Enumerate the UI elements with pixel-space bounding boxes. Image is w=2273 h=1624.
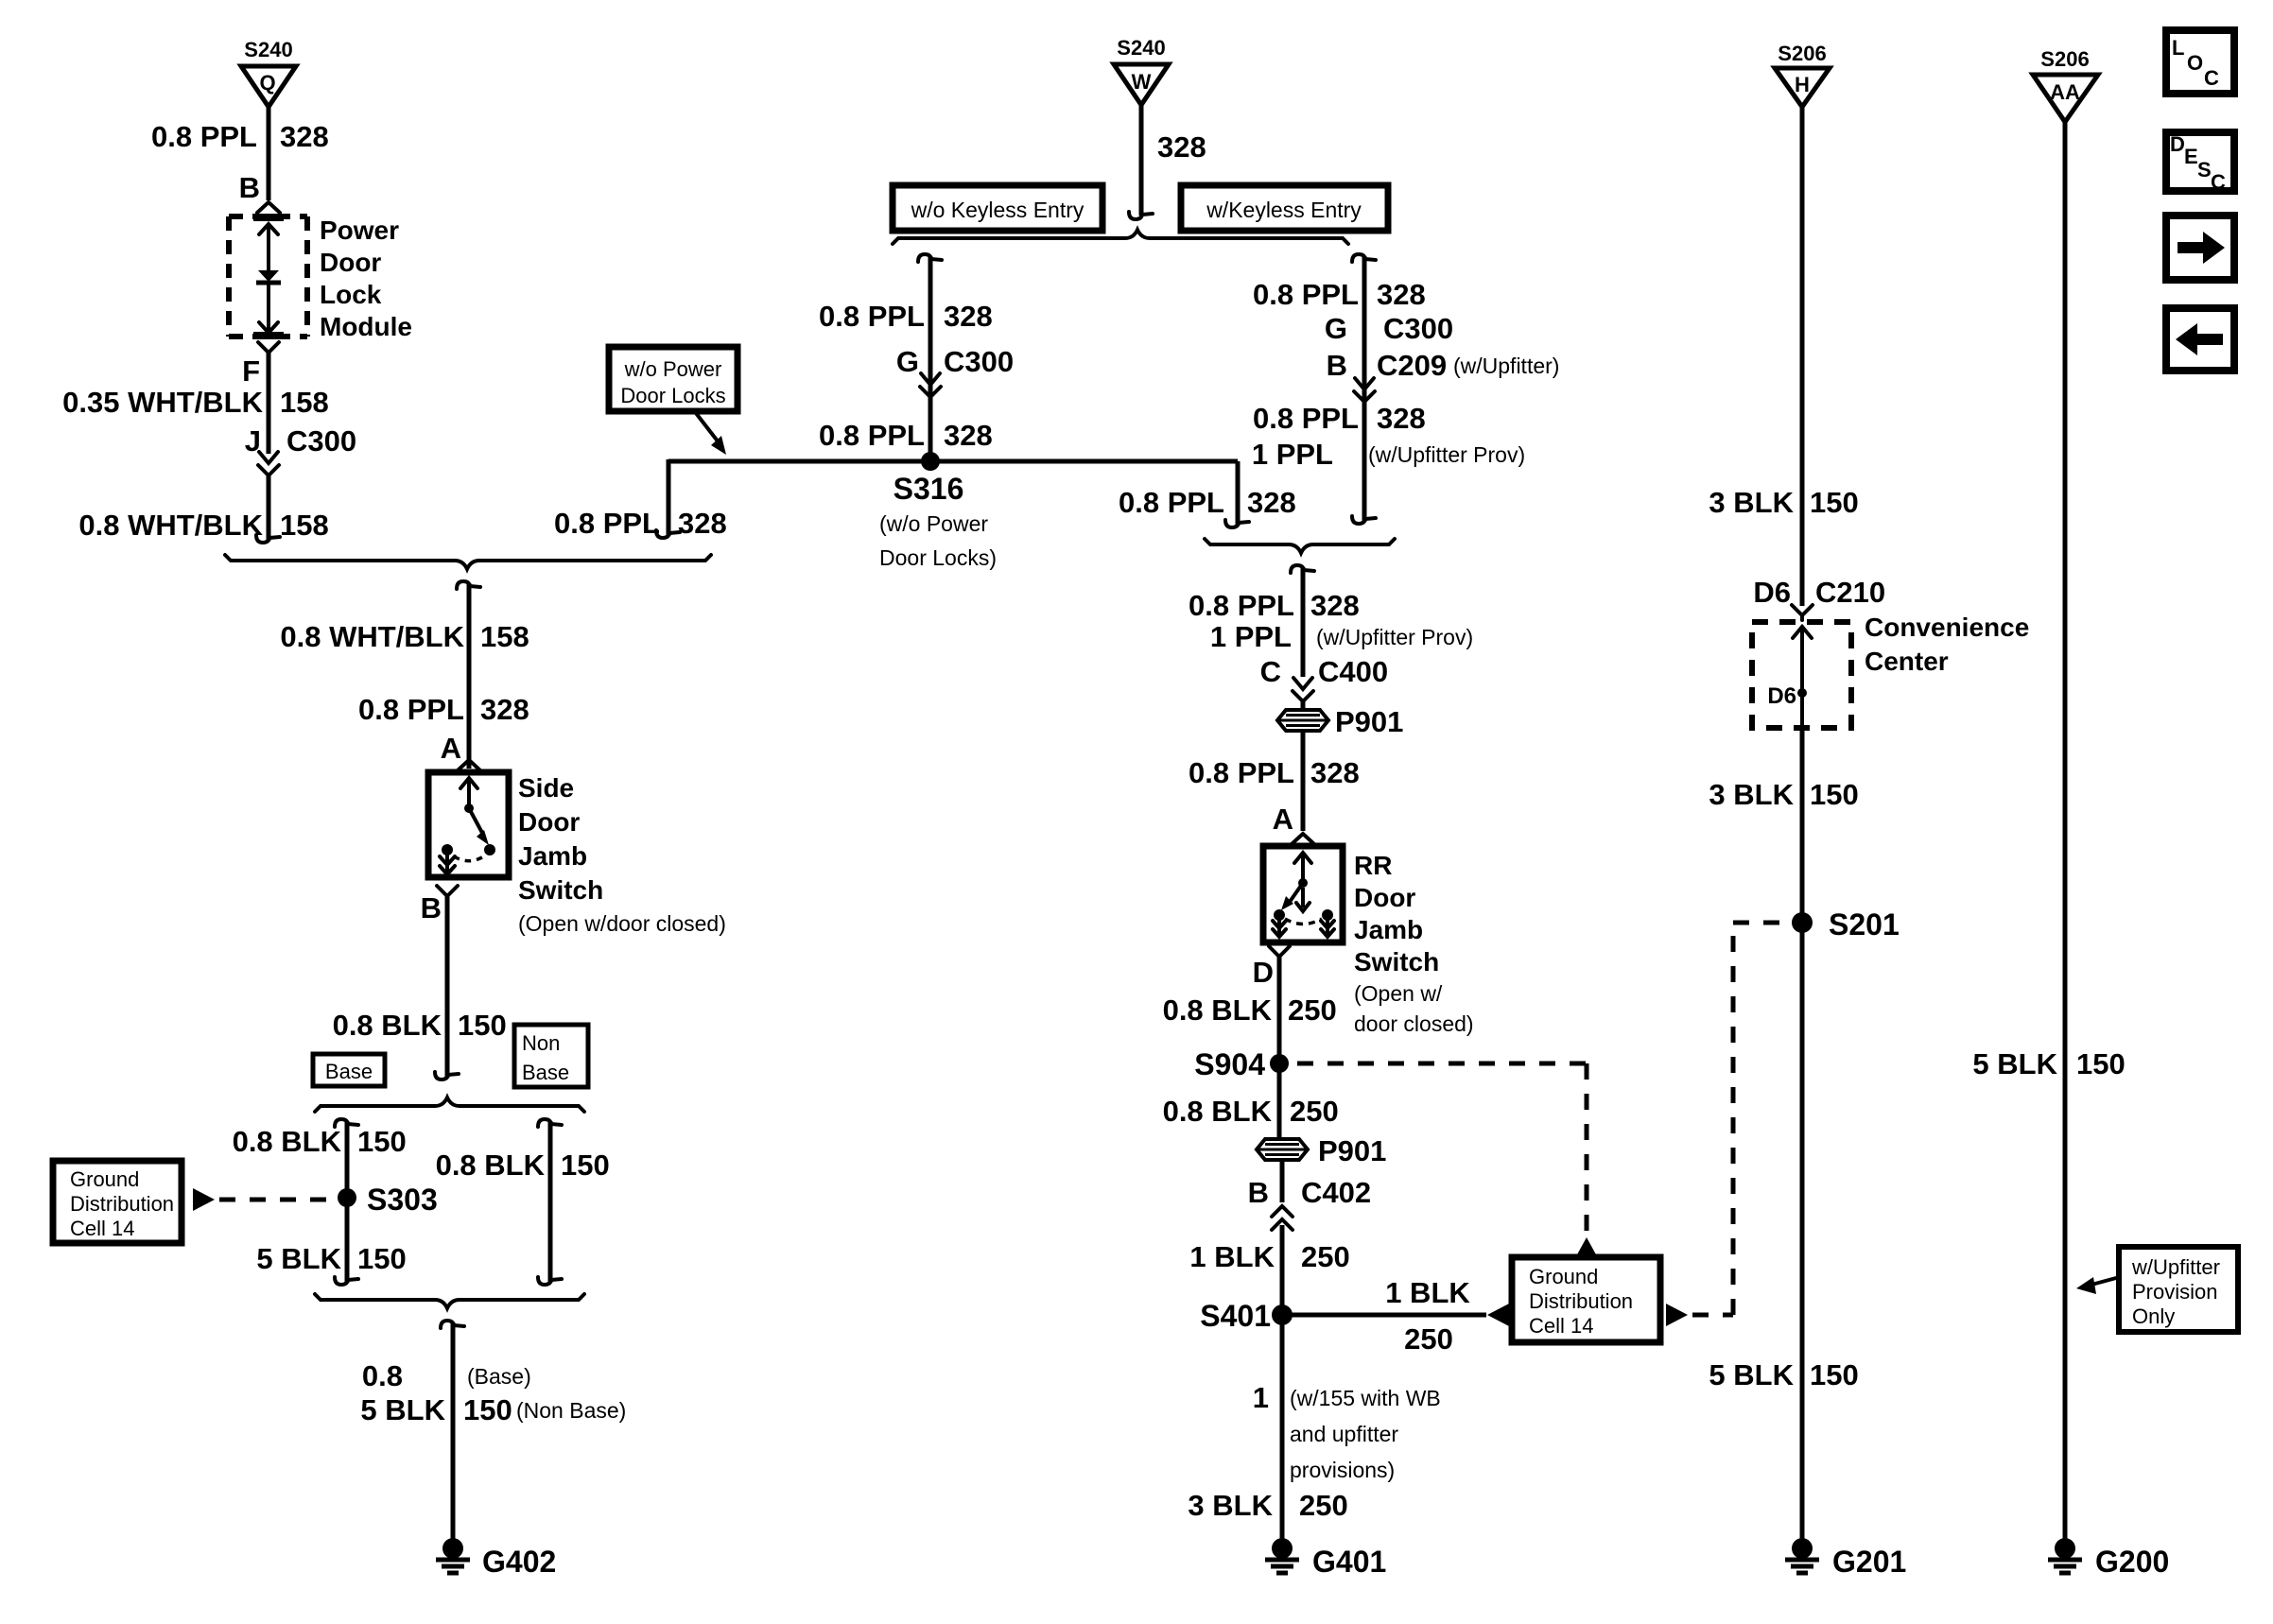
svg-text:L: L — [2172, 36, 2184, 60]
label 0.8 PPL 328 — [358, 693, 529, 726]
pin B chevron — [437, 886, 458, 903]
svg-text:328: 328 — [1310, 589, 1360, 622]
label 3 BLK 150 — [1709, 778, 1858, 811]
svg-text:C300: C300 — [944, 345, 1014, 378]
connector C300 pin G (keyless) — [1325, 312, 1453, 345]
svg-text:w/o Keyless Entry: w/o Keyless Entry — [911, 198, 1084, 222]
svg-text:S316: S316 — [894, 472, 964, 506]
svg-text:door closed): door closed) — [1354, 1011, 1474, 1036]
label 3 BLK 250 — [1188, 1489, 1347, 1522]
wire — [445, 896, 450, 1078]
svg-text:1: 1 — [1253, 1381, 1269, 1414]
wire end curl — [435, 1072, 459, 1080]
ground G200 — [2048, 1538, 2169, 1579]
svg-text:0.8 PPL: 0.8 PPL — [554, 507, 660, 540]
svg-text:150: 150 — [561, 1149, 610, 1182]
svg-text:Door: Door — [320, 248, 381, 277]
svg-text:C210: C210 — [1815, 576, 1885, 609]
option box w/Keyless Entry — [1181, 185, 1388, 231]
svg-text:Jamb: Jamb — [518, 841, 587, 871]
legend box arrow left — [2166, 308, 2234, 371]
svg-text:150: 150 — [2076, 1047, 2126, 1080]
svg-text:Cell 14: Cell 14 — [70, 1217, 134, 1240]
svg-text:158: 158 — [280, 509, 329, 542]
svg-text:(Open w/door closed): (Open w/door closed) — [518, 911, 726, 936]
svg-text:Base: Base — [522, 1061, 569, 1084]
splice S303 — [338, 1183, 438, 1217]
wire start curl (left option) — [335, 1119, 358, 1127]
svg-text:Cell 14: Cell 14 — [1529, 1314, 1593, 1338]
label 1 BLK / 250 — [1385, 1276, 1470, 1356]
wire — [1277, 1063, 1282, 1139]
svg-text:(Non Base): (Non Base) — [516, 1398, 626, 1423]
svg-text:0.8 BLK: 0.8 BLK — [436, 1149, 546, 1182]
wire — [267, 147, 271, 200]
wire (w/keyless branch) — [1362, 256, 1367, 522]
callout arrow from upfitter box — [2076, 1277, 2116, 1294]
svg-text:H: H — [1795, 73, 1810, 96]
junction brace (split, opens up) — [315, 1097, 584, 1112]
label 0.8 PPL 328 — [1119, 486, 1296, 519]
svg-text:S206: S206 — [2040, 47, 2089, 71]
svg-text:Distribution: Distribution — [70, 1192, 174, 1216]
convenience center dashed box — [1752, 622, 1851, 728]
splice S240 (Q) — [241, 38, 296, 107]
svg-text:328: 328 — [280, 120, 329, 153]
junction brace (left merge) — [225, 555, 711, 569]
wire — [267, 107, 271, 194]
svg-text:(w/Upfitter Prov): (w/Upfitter Prov) — [1316, 625, 1473, 649]
switch right contact — [484, 844, 495, 855]
svg-text:(w/155 with WB: (w/155 with WB — [1290, 1386, 1441, 1410]
wire (S316 right corner down) — [1236, 461, 1241, 526]
svg-text:S303: S303 — [367, 1183, 438, 1217]
wire — [267, 475, 271, 541]
svg-text:1 BLK: 1 BLK — [1385, 1276, 1470, 1309]
svg-text:E: E — [2184, 145, 2198, 168]
ground G401 — [1265, 1538, 1386, 1579]
option box Base — [313, 1054, 385, 1086]
svg-text:5 BLK: 5 BLK — [360, 1393, 445, 1426]
wire end curl (right option) — [538, 1277, 562, 1285]
svg-text:Base: Base — [325, 1060, 373, 1083]
wire start curl — [1291, 565, 1314, 573]
grommet P901 — [1277, 705, 1403, 738]
label 5 BLK 150 — [1972, 1047, 2125, 1080]
wire (right option) — [548, 1121, 553, 1283]
svg-text:0.8 BLK: 0.8 BLK — [333, 1009, 442, 1042]
svg-text:Door Locks): Door Locks) — [879, 545, 997, 570]
label 3 BLK 150 — [1709, 486, 1858, 519]
svg-text:Only: Only — [2132, 1304, 2175, 1328]
svg-text:Jamb: Jamb — [1354, 915, 1423, 944]
RR door jamb switch SW2 box — [1263, 846, 1343, 942]
reference arrow (left) — [1487, 1304, 1509, 1326]
wire (horizontal from S316) — [668, 459, 1238, 464]
svg-text:3 BLK: 3 BLK — [1709, 778, 1794, 811]
connector C400 pin C — [1260, 655, 1389, 708]
connector C209 pin B (keyless) — [1327, 349, 1560, 408]
wire start curl — [457, 581, 480, 589]
svg-text:G401: G401 — [1312, 1545, 1386, 1579]
label 0.8 PPL 328 — [151, 120, 329, 153]
label 0.8 BLK 150 — [333, 1009, 507, 1042]
svg-text:0.8 WHT/BLK: 0.8 WHT/BLK — [78, 509, 263, 542]
wire end curl (w/keyless) — [1352, 516, 1376, 524]
wire — [1800, 728, 1805, 1539]
svg-text:C300: C300 — [286, 424, 356, 458]
connector C300 pin G — [896, 345, 1014, 404]
svg-text:328: 328 — [944, 419, 993, 452]
svg-text:0.8 PPL: 0.8 PPL — [1253, 278, 1359, 311]
wire (corner down, w/o PDL) — [667, 459, 671, 536]
svg-text:328: 328 — [1377, 402, 1426, 435]
label 5 BLK 150 — [1709, 1358, 1858, 1391]
junction brace (middle merge) — [1205, 539, 1395, 553]
label 0.8 BLK 250 — [1163, 1095, 1339, 1128]
wire — [2063, 122, 2068, 1539]
dashed reference line to S201 — [1692, 923, 1787, 1315]
RR switch left contact — [1274, 909, 1285, 921]
svg-text:Switch: Switch — [1354, 947, 1439, 976]
svg-text:0.8 PPL: 0.8 PPL — [1189, 589, 1294, 622]
svg-text:(w/Upfitter Prov): (w/Upfitter Prov) — [1368, 442, 1525, 467]
switch left contact — [442, 844, 453, 855]
module internal diode — [256, 270, 281, 333]
label 0.8 PPL 328 — [819, 300, 993, 333]
svg-text:Non: Non — [522, 1031, 560, 1055]
svg-text:158: 158 — [280, 386, 329, 419]
svg-text:A: A — [441, 732, 461, 765]
svg-text:G: G — [1325, 312, 1347, 345]
svg-text:w/o Power: w/o Power — [624, 357, 722, 381]
connector chevron at A — [458, 760, 480, 770]
label 0.8 PPL 328 — [554, 507, 727, 540]
svg-text:Provision: Provision — [2132, 1280, 2217, 1304]
splice S904 — [1194, 1047, 1289, 1081]
reference arrow — [193, 1188, 215, 1211]
label 0.8 BLK 250 — [1163, 993, 1337, 1027]
junction brace (options split, opens down) — [893, 230, 1348, 244]
svg-text:B: B — [421, 891, 442, 924]
power door lock module U1 (dashed box) — [229, 216, 307, 337]
svg-text:D: D — [2170, 132, 2185, 156]
label 1 PPL (w/Upfitter Prov) — [1210, 620, 1473, 653]
option box Non Base — [514, 1025, 588, 1087]
svg-text:328: 328 — [1157, 130, 1206, 164]
label 0.8 / 5 BLK 150 — [360, 1359, 626, 1426]
svg-text:5 BLK: 5 BLK — [1709, 1358, 1794, 1391]
wire start curl (w/keyless branch) — [1352, 254, 1376, 262]
RR switch centre down arrow — [1296, 888, 1310, 911]
svg-text:D: D — [1253, 956, 1274, 989]
wire (w/o keyless branch) — [928, 256, 933, 461]
svg-text:G200: G200 — [2095, 1545, 2169, 1579]
dashed reference line from S904 — [1297, 1063, 1587, 1234]
switch name text — [518, 773, 726, 936]
svg-text:Door Locks: Door Locks — [620, 384, 725, 407]
svg-text:Q: Q — [259, 71, 275, 95]
label 0.8 WHT/BLK 158 — [280, 620, 529, 653]
svg-text:(w/o Power: (w/o Power — [879, 511, 988, 536]
svg-text:0.8: 0.8 — [362, 1359, 403, 1392]
svg-text:D6: D6 — [1767, 683, 1796, 709]
svg-text:1 PPL: 1 PPL — [1252, 438, 1333, 471]
wire (left option) — [345, 1121, 350, 1283]
wire end curl (left option) — [335, 1277, 358, 1285]
wire — [1280, 1225, 1285, 1315]
svg-text:150: 150 — [1810, 1358, 1859, 1391]
callout arrow from w/o PDL box — [696, 413, 726, 455]
wire start curl (left branch) — [918, 254, 942, 262]
ground distribution cell 14 reference box — [53, 1161, 182, 1243]
svg-text:1 BLK: 1 BLK — [1189, 1240, 1275, 1273]
svg-text:Ground: Ground — [1529, 1265, 1598, 1288]
svg-text:250: 250 — [1290, 1095, 1339, 1128]
convenience center name — [1865, 613, 2029, 676]
svg-text:3 BLK: 3 BLK — [1709, 486, 1794, 519]
svg-text:G402: G402 — [482, 1545, 556, 1579]
connector chevron at B — [257, 202, 280, 213]
wire end curl — [656, 530, 680, 538]
svg-text:158: 158 — [480, 620, 529, 653]
svg-text:0.8 PPL: 0.8 PPL — [1119, 486, 1224, 519]
svg-text:Convenience: Convenience — [1865, 613, 2029, 642]
svg-text:C402: C402 — [1301, 1176, 1371, 1209]
option box w/o Power Door Locks — [609, 347, 737, 411]
wire (horizontal to ground distribution) — [1282, 1313, 1486, 1318]
connector chevron at A — [1292, 834, 1314, 844]
module internal arrow down — [259, 322, 278, 333]
RR switch dashed arc — [1285, 919, 1322, 924]
svg-text:Power: Power — [320, 216, 399, 245]
ground G201 — [1785, 1538, 1906, 1579]
connector C300 pin J — [245, 424, 356, 482]
wire — [1800, 107, 1805, 606]
svg-text:G: G — [896, 345, 919, 378]
label 0.8 BLK 150 — [436, 1149, 610, 1182]
svg-text:C300: C300 — [1383, 312, 1453, 345]
legend box LOC — [2166, 30, 2234, 94]
svg-text:250: 250 — [1301, 1240, 1350, 1273]
svg-text:S201: S201 — [1829, 907, 1900, 942]
label 1 BLK 250 — [1189, 1240, 1349, 1273]
wire below S401 — [1280, 1315, 1285, 1539]
switch common contact — [464, 803, 474, 813]
svg-text:G201: G201 — [1832, 1545, 1906, 1579]
svg-text:250: 250 — [1299, 1489, 1348, 1522]
svg-text:0.8 BLK: 0.8 BLK — [1163, 993, 1273, 1027]
svg-text:150: 150 — [463, 1393, 512, 1426]
svg-text:1 PPL: 1 PPL — [1210, 620, 1292, 653]
convenience center internal arrow up — [1793, 627, 1812, 728]
wire — [1277, 957, 1282, 1063]
legend box DESC — [2166, 132, 2234, 194]
splice S401 — [1200, 1299, 1293, 1333]
svg-text:S904: S904 — [1194, 1047, 1265, 1081]
reference arrow (right) — [1666, 1304, 1688, 1326]
svg-text:S240: S240 — [244, 38, 292, 61]
label 1 PPL (w/Upfitter Prov) — [1252, 438, 1525, 471]
svg-text:P901: P901 — [1318, 1134, 1386, 1167]
wire start curl — [441, 1321, 464, 1328]
svg-text:(w/Upfitter): (w/Upfitter) — [1453, 354, 1559, 378]
wire end curl — [1129, 212, 1153, 219]
svg-text:Side: Side — [518, 773, 574, 803]
svg-text:(Open w/: (Open w/ — [1354, 981, 1443, 1006]
svg-text:Module: Module — [320, 312, 412, 341]
svg-text:C: C — [1260, 655, 1281, 688]
label 0.8 BLK 150 — [233, 1125, 407, 1158]
splice S201 — [1792, 907, 1900, 942]
svg-text:0.8 BLK: 0.8 BLK — [1163, 1095, 1273, 1128]
switch dashed arc — [454, 855, 485, 861]
svg-text:P901: P901 — [1335, 705, 1403, 738]
svg-text:5 BLK: 5 BLK — [1972, 1047, 2057, 1080]
splice S240 (W) — [1114, 36, 1169, 105]
label 0.8 PPL 328 — [1189, 756, 1360, 789]
svg-text:328: 328 — [480, 693, 529, 726]
label 0.8 PPL 328 — [819, 419, 993, 452]
wire — [267, 353, 271, 454]
svg-text:328: 328 — [1247, 486, 1296, 519]
svg-text:AA: AA — [2050, 80, 2080, 104]
module internal arrow up — [259, 224, 278, 270]
reference arrow (up) — [1576, 1237, 1597, 1256]
connector C210 pin D6 — [1753, 576, 1885, 620]
side door jamb switch SW1 box — [428, 772, 509, 877]
pin D chevron — [1269, 946, 1290, 963]
label 0.8 WHT/BLK 158 — [78, 509, 328, 542]
RR switch travel arrows — [1273, 920, 1334, 937]
svg-text:Switch: Switch — [518, 875, 603, 905]
switch travel arrow (double head down) — [440, 855, 455, 874]
RR switch internal arrow up — [1294, 853, 1311, 881]
ground G402 — [436, 1538, 556, 1579]
svg-text:150: 150 — [1810, 486, 1859, 519]
svg-text:150: 150 — [357, 1125, 407, 1158]
wire — [1280, 1159, 1285, 1202]
svg-text:250: 250 — [1288, 993, 1337, 1027]
svg-text:S206: S206 — [1778, 42, 1826, 65]
svg-text:0.35 WHT/BLK: 0.35 WHT/BLK — [62, 386, 263, 419]
svg-text:328: 328 — [678, 507, 727, 540]
wire start curl (right option) — [538, 1119, 562, 1127]
label 0.8 PPL 328 — [1253, 402, 1426, 435]
splice S206 (H) — [1775, 42, 1830, 107]
svg-text:D6: D6 — [1753, 576, 1791, 609]
splice S206 (AA) — [2033, 47, 2098, 122]
svg-text:0.8 PPL: 0.8 PPL — [1189, 756, 1294, 789]
svg-text:Center: Center — [1865, 647, 1949, 676]
wire to G402 — [451, 1322, 456, 1539]
svg-text:0.8 PPL: 0.8 PPL — [819, 300, 925, 333]
svg-text:150: 150 — [1810, 778, 1859, 811]
svg-text:0.8 BLK: 0.8 BLK — [233, 1125, 342, 1158]
RR switch name text — [1354, 851, 1474, 1036]
svg-text:150: 150 — [357, 1242, 407, 1275]
splice S316 node — [879, 452, 997, 570]
RR switch blade with arrowhead — [1281, 883, 1303, 910]
connector C402 pin B — [1248, 1176, 1372, 1230]
module name text — [320, 216, 412, 341]
wire — [1301, 701, 1306, 711]
dashed reference line to S303 — [219, 1198, 333, 1202]
grommet P901 (second) — [1257, 1134, 1386, 1167]
svg-text:and upfitter: and upfitter — [1290, 1422, 1398, 1446]
svg-text:S401: S401 — [1200, 1299, 1271, 1333]
svg-text:C: C — [2204, 66, 2219, 90]
svg-text:328: 328 — [1310, 756, 1360, 789]
svg-text:3 BLK: 3 BLK — [1188, 1489, 1273, 1522]
label 1 (w/155 with WB and upfitter provisions) — [1253, 1381, 1441, 1482]
svg-text:provisions): provisions) — [1290, 1458, 1395, 1482]
pin F chevron — [258, 342, 279, 359]
wire — [467, 583, 472, 769]
wire (to C400) — [1301, 567, 1306, 677]
svg-text:S: S — [2197, 158, 2212, 181]
svg-text:C400: C400 — [1318, 655, 1388, 688]
label 5 BLK 150 — [256, 1242, 406, 1275]
svg-text:w/Keyless Entry: w/Keyless Entry — [1206, 198, 1362, 222]
RR switch common contact — [1298, 878, 1308, 888]
svg-text:Door: Door — [518, 807, 580, 837]
svg-text:328: 328 — [1377, 278, 1426, 311]
svg-text:Lock: Lock — [320, 280, 382, 309]
svg-text:B: B — [239, 171, 260, 204]
svg-text:RR: RR — [1354, 851, 1392, 880]
svg-text:F: F — [242, 354, 260, 388]
junction brace (lower merge) — [315, 1294, 584, 1308]
svg-text:0.8 PPL: 0.8 PPL — [358, 693, 464, 726]
label 0.8 PPL 328 — [1189, 589, 1360, 622]
svg-text:W: W — [1132, 70, 1152, 94]
svg-text:Distribution: Distribution — [1529, 1289, 1633, 1313]
wire — [1139, 105, 1144, 216]
svg-text:Door: Door — [1354, 883, 1415, 912]
svg-text:Ground: Ground — [70, 1167, 139, 1191]
svg-text:B: B — [1248, 1176, 1269, 1209]
RR switch right contact — [1322, 909, 1333, 921]
legend box arrow right — [2166, 216, 2234, 280]
svg-text:S240: S240 — [1117, 36, 1165, 60]
svg-text:C: C — [2211, 170, 2226, 194]
svg-text:A: A — [1273, 803, 1293, 836]
label 0.8 PPL 328 — [1253, 278, 1426, 311]
svg-text:O: O — [2187, 51, 2203, 75]
option box w/o Keyless Entry — [893, 185, 1102, 231]
svg-text:0.8 PPL: 0.8 PPL — [1253, 402, 1359, 435]
switch blade with arrowhead — [469, 808, 489, 845]
svg-text:5 BLK: 5 BLK — [256, 1242, 341, 1275]
svg-text:(Base): (Base) — [467, 1364, 531, 1389]
svg-text:328: 328 — [944, 300, 993, 333]
switch internal arrow up — [460, 778, 477, 806]
wire — [1301, 730, 1306, 831]
svg-text:C209: C209 — [1377, 349, 1447, 382]
wire end curl — [256, 535, 280, 543]
pin D6 internal — [1767, 683, 1807, 709]
svg-text:w/Upfitter: w/Upfitter — [2131, 1255, 2220, 1279]
svg-text:0.8 PPL: 0.8 PPL — [819, 419, 925, 452]
option box w/Upfitter Provision Only — [2119, 1247, 2238, 1332]
ground distribution cell 14 box (middle) — [1512, 1257, 1660, 1342]
svg-text:150: 150 — [458, 1009, 507, 1042]
wire end curl — [1225, 520, 1249, 527]
svg-text:B: B — [1327, 349, 1347, 382]
svg-text:0.8 PPL: 0.8 PPL — [151, 120, 257, 153]
label 0.35 WHT/BLK 158 — [62, 386, 329, 419]
